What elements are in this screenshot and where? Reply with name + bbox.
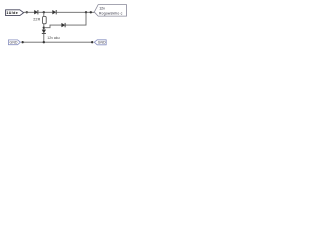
svg-text:1U/de: 1U/de: [6, 11, 18, 15]
diode D4 (down, node C to ground rail): [42, 30, 46, 34]
node at output port: [90, 11, 92, 13]
wire node A down to R1: [43, 12, 45, 16]
svg-text:12v: 12v: [99, 7, 105, 11]
diode D3 (middle branch): [62, 23, 66, 27]
node C: [43, 27, 45, 29]
wire input to D1: [24, 11, 35, 13]
svg-text:22R: 22R: [33, 17, 40, 21]
wire D3 up to node B: [66, 12, 87, 25]
wire node C jog to middle branch: [44, 25, 62, 28]
node at right GND: [91, 41, 93, 43]
GND flag right: [94, 40, 106, 45]
diode D2: [53, 10, 57, 14]
wire D2 to node B: [56, 11, 94, 13]
port IN1 (input flag, left): [6, 10, 24, 16]
resistor R1 22R (IEC box, vertical): [43, 16, 47, 23]
GND flag left: [8, 40, 20, 45]
node A: [43, 11, 45, 13]
node D (rail / diode branch): [43, 41, 45, 43]
background: [0, 0, 130, 50]
node at input port: [26, 11, 28, 13]
svg-text:12v aku: 12v aku: [47, 36, 59, 40]
ground rail (bottom wire): [23, 41, 93, 43]
wire D1 to node A: [38, 11, 52, 13]
svg-text:Rogowskiho c: Rogowskiho c: [99, 12, 123, 16]
svg-text:GND: GND: [10, 41, 18, 45]
wire D4 to bottom rail: [43, 33, 45, 42]
node at left GND: [21, 41, 23, 43]
port OUT (output flag, right): [94, 5, 126, 17]
svg-text:GND: GND: [98, 41, 106, 45]
node B: [85, 11, 87, 13]
wire R1 to node C: [43, 24, 45, 30]
diode D1: [34, 10, 38, 14]
